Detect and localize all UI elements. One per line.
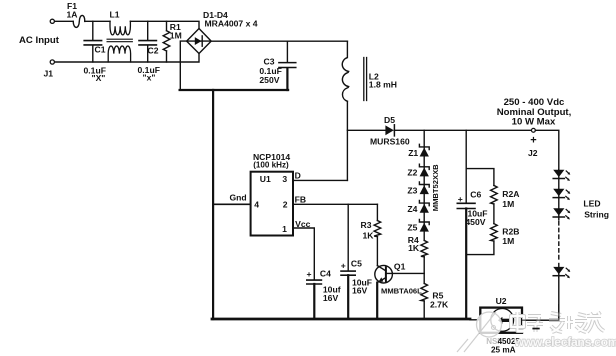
svg-text:"X": "X"	[92, 73, 106, 83]
resistor R2A	[491, 185, 498, 204]
capacitor C3	[279, 41, 296, 90]
wire R5 to ground	[423, 301, 425, 319]
connector J1 terminal bottom	[50, 60, 54, 64]
svg-text:String: String	[584, 209, 609, 219]
svg-text:2.7K: 2.7K	[430, 300, 449, 310]
wire U2 to LED string bottom	[522, 278, 559, 321]
svg-text:+: +	[307, 269, 312, 279]
wire top rail: fuse to L1	[85, 20, 110, 22]
svg-text:Z1: Z1	[408, 148, 418, 158]
zener Z1	[419, 144, 429, 156]
svg-text:Z3: Z3	[407, 185, 417, 195]
svg-text:1A: 1A	[67, 9, 78, 19]
capacitor C6 branch wire	[465, 130, 467, 202]
ground rail	[212, 318, 470, 321]
svg-text:+: +	[458, 194, 463, 204]
capacitor C6	[457, 203, 475, 318]
wire LED string segment 2	[558, 264, 560, 278]
svg-text:C6: C6	[470, 189, 481, 199]
svg-text:MURS160: MURS160	[370, 137, 410, 147]
capacitor C1	[84, 21, 101, 62]
inductor L2	[342, 41, 366, 180]
svg-text:250V: 250V	[259, 75, 279, 85]
svg-text:1: 1	[282, 224, 287, 234]
LED string symbols	[553, 170, 570, 279]
zener chain wire	[423, 130, 425, 240]
svg-text:D5: D5	[384, 115, 395, 125]
svg-text:R3: R3	[361, 220, 372, 230]
IC U2 NSI45025	[480, 308, 522, 333]
wire pin 3 D	[293, 179, 347, 181]
resistor R2B	[491, 224, 498, 242]
zener Z4	[419, 201, 429, 213]
svg-text:AC Input: AC Input	[19, 35, 60, 46]
wire FB to C5	[347, 204, 349, 270]
svg-text:(100 kHz): (100 kHz)	[253, 160, 289, 169]
svg-text:+: +	[341, 261, 346, 271]
capacitor C5	[341, 271, 355, 318]
svg-text:C5: C5	[351, 259, 362, 269]
fuse F1	[73, 15, 85, 27]
wire R2A to R2B	[493, 204, 495, 224]
svg-text:1M: 1M	[170, 30, 182, 40]
svg-text:1K: 1K	[408, 243, 420, 253]
svg-text:U2: U2	[496, 296, 507, 306]
wire R4 to base junction	[423, 257, 425, 284]
svg-text:450V: 450V	[465, 217, 485, 227]
svg-text:Q1: Q1	[394, 262, 406, 272]
svg-text:J2: J2	[528, 148, 538, 158]
zener Z3	[419, 182, 429, 194]
svg-text:Vcc: Vcc	[295, 219, 311, 229]
svg-text:"x": "x"	[143, 73, 156, 83]
capacitor C2	[139, 21, 156, 62]
wire J2 to LED string top	[535, 130, 558, 169]
svg-text:C1: C1	[95, 45, 106, 55]
svg-text:www.elecfans.com: www.elecfans.com	[514, 335, 616, 349]
svg-text:4: 4	[254, 199, 259, 209]
svg-text:2: 2	[283, 199, 288, 209]
svg-text:Z4: Z4	[407, 204, 417, 214]
wire bottom rail: J1 to bridge bottom	[55, 54, 199, 63]
wire pin 2 FB	[293, 203, 377, 205]
LED D6	[553, 170, 570, 181]
svg-text:U1: U1	[260, 174, 271, 184]
svg-text:C4: C4	[320, 269, 331, 279]
resistor R4	[421, 240, 428, 256]
wire dashed LED string continuation	[558, 222, 560, 263]
IC U1 NCP1014 box	[251, 172, 293, 236]
svg-text:L1: L1	[110, 9, 120, 19]
svg-text:C2: C2	[148, 46, 159, 56]
svg-text:R2A: R2A	[502, 189, 519, 199]
watermark chinese characters	[511, 312, 604, 332]
transistor Q1 MMBTA06L	[375, 265, 424, 318]
svg-text:Z5: Z5	[407, 223, 417, 233]
svg-text:+: +	[530, 134, 536, 146]
wire pin 4 Gnd	[213, 203, 251, 205]
watermark logo	[457, 312, 502, 352]
label J2 minus	[532, 328, 539, 330]
capacitor C4	[307, 280, 322, 318]
svg-text:10 W Max: 10 W Max	[512, 117, 556, 128]
wire ground path horizontal	[180, 89, 289, 91]
zener Z2	[419, 164, 429, 176]
svg-text:J1: J1	[44, 69, 54, 79]
resistor R1	[163, 21, 170, 62]
wire ground rail to U2	[470, 319, 480, 321]
svg-text:D: D	[295, 171, 301, 181]
svg-text:1M: 1M	[502, 199, 514, 209]
svg-text:Z2: Z2	[407, 168, 417, 178]
wire bridge DC- : left vertex down to ground path	[180, 41, 186, 90]
svg-text:1K: 1K	[363, 230, 375, 240]
svg-text:16V: 16V	[323, 293, 339, 303]
wire ground bus vertical	[212, 90, 214, 319]
resistor R3	[374, 204, 381, 265]
wire top rail: L1 to bridge	[130, 21, 199, 28]
svg-text:MRA4007 x 4: MRA4007 x 4	[205, 19, 258, 29]
svg-text:Gnd: Gnd	[230, 193, 247, 203]
diode D5 MURS160	[347, 125, 531, 136]
connector J1 terminal top	[50, 19, 54, 23]
svg-text:LED: LED	[583, 199, 600, 209]
wire U2 to LED string bottom (over watermark)	[522, 304, 559, 320]
LED D9	[553, 267, 570, 278]
svg-text:1M: 1M	[502, 236, 514, 246]
svg-text:MMBT52XXB: MMBT52XXB	[431, 164, 440, 211]
wire DC+ rail: bridge to L2	[211, 40, 347, 42]
bridge rectifier D1-D4	[187, 29, 212, 54]
resistor R5	[421, 283, 428, 301]
inductor L1 common-mode choke	[107, 21, 132, 62]
LED D7	[553, 189, 570, 200]
wire pin 1 Vcc	[293, 228, 314, 280]
svg-text:25 mA: 25 mA	[491, 346, 516, 355]
svg-text:1.8 mH: 1.8 mH	[369, 79, 397, 89]
svg-text:16V: 16V	[352, 286, 368, 296]
LED D8	[553, 208, 570, 219]
zener Z5	[419, 219, 429, 231]
svg-text:3: 3	[282, 174, 287, 184]
wire LED string segment 1	[558, 170, 560, 220]
svg-text:MMBTA06L: MMBTA06L	[381, 287, 422, 296]
connector J2 output terminal	[531, 128, 535, 132]
svg-text:FB: FB	[295, 195, 306, 205]
wire R2 branch bottom	[466, 241, 494, 255]
wire top rail: J1 to fuse	[55, 20, 73, 22]
wire R2 branch top	[466, 169, 494, 186]
